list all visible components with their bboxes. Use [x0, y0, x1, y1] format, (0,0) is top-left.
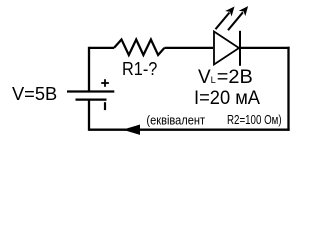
current direction arrowhead — [123, 125, 140, 135]
svg-text:L: L — [211, 75, 216, 85]
svg-text:R1-?: R1-? — [122, 59, 157, 79]
wire left upper — [88, 47, 90, 91]
battery minus tick — [104, 102, 106, 110]
wire LED to top-right corner — [240, 47, 290, 49]
wire bottom — [89, 129, 290, 131]
LED light arrow 1 — [216, 7, 235, 30]
svg-text:R2=100 Ом): R2=100 Ом) — [227, 113, 282, 127]
svg-text:I=20 мА: I=20 мА — [194, 88, 260, 109]
wire top-left segment — [89, 47, 114, 49]
LED light arrow 2 — [228, 6, 248, 30]
LED cathode bar — [239, 31, 241, 66]
battery V1 positive plate — [67, 90, 114, 92]
svg-text:(еквівалент: (еквівалент — [146, 113, 205, 128]
svg-text:V=5B: V=5B — [12, 83, 57, 104]
wire left lower — [88, 100, 90, 131]
resistor R1 — [114, 40, 164, 56]
LED D1 triangle — [214, 32, 239, 65]
battery V1 negative plate — [76, 98, 107, 100]
svg-text:V: V — [198, 67, 211, 88]
wire resistor to LED — [164, 47, 213, 49]
wire right side — [287, 47, 289, 131]
battery plus sign — [101, 79, 109, 87]
label VL=2B — [198, 67, 253, 88]
svg-text:=2B: =2B — [217, 67, 253, 88]
